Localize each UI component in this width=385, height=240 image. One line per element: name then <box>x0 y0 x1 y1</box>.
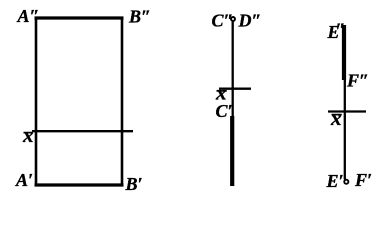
edge A"A' (left side of rectangle) <box>35 17 38 187</box>
edge B"B' (right side of rectangle) <box>121 17 124 186</box>
svg-text:F′: F′ <box>354 170 372 190</box>
segment F" to E' thin vertical line <box>344 80 346 180</box>
svg-text:C′: C′ <box>216 101 233 121</box>
x-axis line through left figure <box>32 130 133 132</box>
edge A'B' (bottom of rectangle) <box>35 183 124 186</box>
x-bar macron (middle figure) <box>217 90 227 92</box>
svg-text:B′: B′ <box>125 174 143 192</box>
svg-text:x: x <box>22 123 34 147</box>
svg-text:A′: A′ <box>15 170 33 190</box>
svg-text:C″: C″ <box>212 11 234 31</box>
svg-text:D″: D″ <box>238 11 262 31</box>
point circle C"=D" <box>231 17 235 21</box>
x-bar macron (left figure) <box>24 132 33 134</box>
segment C"(D") to axis, thin vertical line <box>232 22 234 116</box>
segment C'D' thick vertical line <box>230 116 234 186</box>
svg-text:A″: A″ <box>17 6 40 26</box>
x-axis tick (middle figure) <box>219 88 251 90</box>
x-bar macron (right figure) <box>332 114 342 116</box>
svg-text:F″: F″ <box>346 71 369 91</box>
svg-text:″: ″ <box>336 20 346 40</box>
edge A"B" (top of rectangle) <box>35 16 124 19</box>
segment E"F" thick vertical line <box>342 25 346 80</box>
svg-text:x: x <box>330 106 342 130</box>
svg-text:E′: E′ <box>326 171 344 191</box>
x-axis tick (right figure) <box>328 110 366 112</box>
svg-text:B″: B″ <box>128 7 151 27</box>
point circle E'=F' <box>344 180 348 184</box>
